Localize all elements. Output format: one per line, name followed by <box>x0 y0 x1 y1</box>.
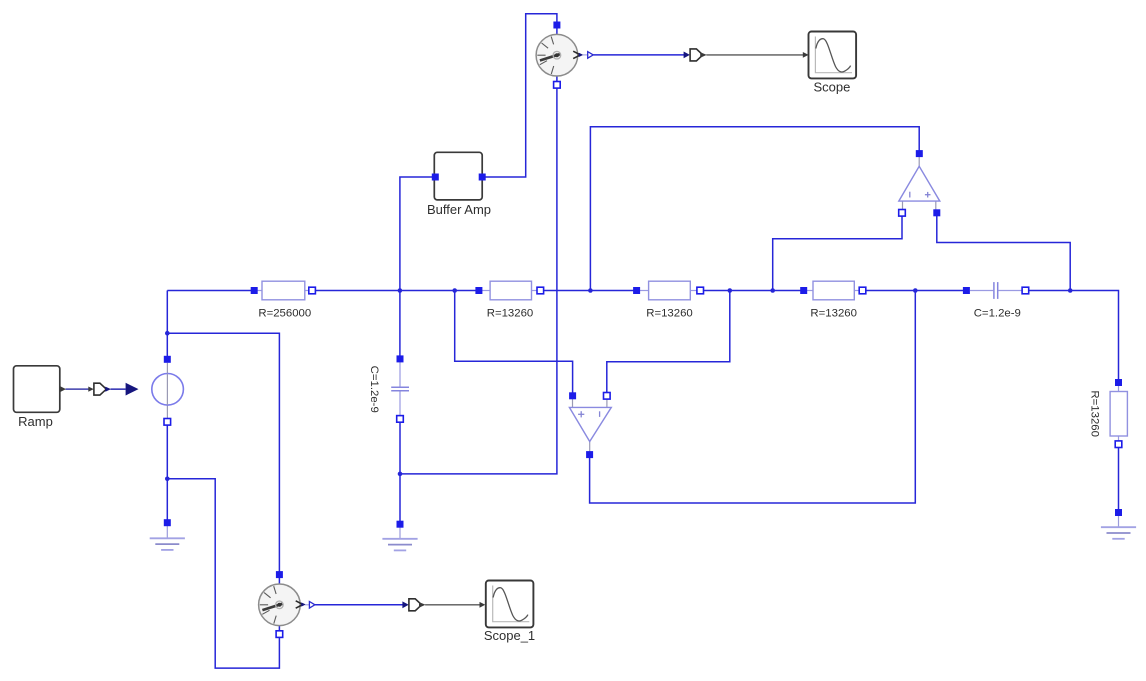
ammeter AM1 (bottom gauge) <box>259 571 315 637</box>
PS input triangle of source VS1 <box>126 383 139 396</box>
svg-text:R=13260: R=13260 <box>810 307 857 319</box>
resistor R4 R=13260 <box>800 281 866 319</box>
svg-text:Scope_1: Scope_1 <box>484 628 535 643</box>
wire source bottom loop to ammeter bottom port <box>167 479 279 668</box>
wire top voltmeter PS output to converter <box>593 54 684 56</box>
junction node B2 <box>770 288 775 293</box>
voltmeter VM1 (top gauge) <box>536 22 593 89</box>
ground G1 (under capacitor C1) <box>382 521 417 551</box>
junction node source branch <box>165 331 170 336</box>
junction node C1 bottom <box>398 472 403 477</box>
wire main row: C2 right port to vertical resistor R5 top port <box>1025 291 1118 383</box>
resistor R3 R=13260 <box>633 281 703 319</box>
junction node source bottom branch <box>165 477 170 482</box>
wire vertical resistor R5 bottom to ground G2 <box>1118 444 1120 510</box>
wire op-amp U2 plus input right to node E <box>937 213 1070 291</box>
converter CVT2 (PS-Simulink, bottom) <box>402 599 425 611</box>
controlled source VS1 (circle) <box>152 356 184 425</box>
wire capacitor C1 bottom port to ground G1 <box>399 421 401 521</box>
converter CVT1 (PS-Simulink, top) <box>684 49 707 61</box>
junction node E <box>1068 288 1073 293</box>
ground G2 (under resistor R5) <box>1101 509 1136 539</box>
wire Buffer Amp output to top voltmeter top port <box>482 14 557 177</box>
wire Buffer Amp input down to capacitor C1 top port (crosses main row) <box>400 177 436 357</box>
op-amp U2 (pointing up) <box>899 150 941 216</box>
Scope_1 block <box>480 581 536 644</box>
svg-text:R=13260: R=13260 <box>1089 390 1101 437</box>
wire main row: R4 to C2 <box>863 290 967 292</box>
wire top voltmeter bottom port down and left to capacitor C1 bottom node <box>400 76 557 474</box>
wire op-amp U1 output loop to node C <box>590 291 916 504</box>
wire converter CVT2 to Scope_1 <box>425 604 480 606</box>
svg-text:Scope: Scope <box>813 80 850 95</box>
wire source branch node to bottom ammeter top port <box>167 333 279 585</box>
op-amp U1 (pointing down) <box>569 392 611 458</box>
wire main row: R3 to R4 <box>700 290 804 292</box>
wire bottom ammeter PS output to converter <box>315 604 403 606</box>
wire feedback loop node D up over to op-amp U2 output <box>590 127 919 291</box>
wire node B to op-amp U1 minus input <box>607 291 730 396</box>
svg-text:Ramp: Ramp <box>18 414 53 429</box>
Scope block <box>803 32 856 95</box>
capacitor C2 (horizontal) C=1.2e-9 <box>963 282 1029 319</box>
Buffer Amp block <box>427 152 491 217</box>
capacitor C1 (vertical) C=1.2e-9 <box>368 355 409 422</box>
junction node A <box>452 288 457 293</box>
svg-text:Buffer Amp: Buffer Amp <box>427 202 491 217</box>
converter CVT0 (Simulink-PS) <box>88 383 111 395</box>
svg-text:R=13260: R=13260 <box>646 307 693 319</box>
wire converter CVT1 to Scope <box>706 54 803 56</box>
svg-text:C=1.2e-9: C=1.2e-9 <box>974 307 1021 319</box>
wire Ramp to converter CVT0 <box>66 388 90 390</box>
junction node at capacitor C1 top / row crossing <box>398 288 403 293</box>
junction node C <box>913 288 918 293</box>
resistor R2 R=13260 <box>475 281 543 319</box>
wire converter CVT0 to source input triangle <box>111 388 126 390</box>
wire op-amp U2 minus input down-left to node B2 <box>773 213 902 291</box>
ground G3 (under source) <box>150 519 185 550</box>
wire node A to op-amp U1 plus input <box>455 291 573 396</box>
Ramp block <box>14 366 67 429</box>
wire main row: R2 to R3 <box>540 290 636 292</box>
junction node D <box>588 288 593 293</box>
resistor R1 R=256000 <box>251 281 316 319</box>
svg-text:C=1.2e-9: C=1.2e-9 <box>368 366 380 413</box>
wire main row: R1 to R2 <box>312 290 479 292</box>
wire source bottom port to ground G3 <box>166 422 168 521</box>
wire row left end down to source top port <box>166 291 168 360</box>
junction node B (minus input tap) <box>728 288 733 293</box>
wire main row: source node to R1 <box>167 290 254 292</box>
svg-text:R=13260: R=13260 <box>487 307 534 319</box>
svg-text:R=256000: R=256000 <box>258 307 311 319</box>
resistor R5 (vertical) R=13260 <box>1089 379 1128 448</box>
